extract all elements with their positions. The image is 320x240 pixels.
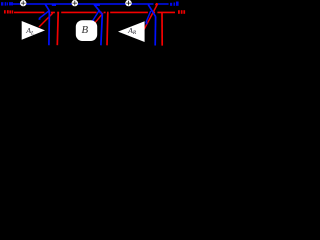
- arrowhead of blue arrow at A_R: [145, 22, 147, 25]
- background: [0, 0, 186, 70]
- junction blob on blue bus at site 2: [95, 4, 100, 6]
- svg-text:B: B: [82, 24, 89, 36]
- wire blue arrow from bus area into B corner: [93, 11, 99, 21]
- arrowhead of blue arrow at A_L: [38, 18, 41, 20]
- node r label (red, right): [178, 10, 185, 14]
- node y label (blue, top-right): [170, 2, 179, 6]
- wire red diag behind A_L up to red bus: [39, 13, 53, 27]
- node u label (blue, top-left): [1, 2, 13, 5]
- wire blue arrow from apex into A_L top edge: [39, 11, 49, 19]
- amplifier A_L: [22, 21, 45, 40]
- wire blue bus top: [13, 3, 169, 5]
- arrowhead of red diag at blue bus (site 3): [155, 3, 158, 6]
- summing node 3: [125, 0, 131, 6]
- wire red vertical 3: [161, 13, 163, 46]
- wire red vertical 1: [56, 13, 59, 46]
- summing node 1: [20, 0, 26, 6]
- summing node 2: [72, 0, 78, 6]
- node e label (red, left): [4, 10, 13, 13]
- wire blue drop 2 (bus leg + vertical): [94, 4, 102, 45]
- arrowhead of blue arrow at B: [92, 20, 94, 23]
- amplifier A_R (points left): [118, 21, 145, 42]
- wire red vertical 2: [106, 13, 109, 46]
- wire blue drop 3 (bus leg + vertical): [148, 5, 155, 46]
- block B: [76, 20, 97, 41]
- wire red long diag behind A_R crossing both buses: [144, 4, 158, 30]
- junction blob on blue bus at site 1: [52, 4, 56, 6]
- wire blue arrow into A_R corner: [146, 11, 151, 23]
- wire blue drop 1 (bus leg + vertical): [45, 4, 49, 45]
- wire red diag behind B up to red bus: [93, 13, 103, 25]
- wire red bus: [14, 11, 175, 13]
